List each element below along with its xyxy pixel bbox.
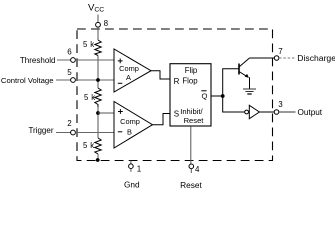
wire pin 7 to Discharge label: [279, 57, 295, 59]
wire Vcc to pin 8: [97, 15, 99, 23]
svg-text:Control Voltage: Control Voltage: [1, 76, 54, 85]
pin 2 circle: [71, 130, 76, 135]
wire Comp B output to S input: [153, 114, 171, 125]
wire Threshold lead: [57, 59, 71, 61]
wire pin 2 to Comp B - input: [75, 132, 114, 134]
svg-text:6: 6: [67, 48, 72, 57]
Comp A - input symbol: [118, 82, 123, 84]
pin 3 circle: [274, 110, 279, 115]
svg-text:Comp: Comp: [120, 117, 140, 126]
wire Trigger lead: [56, 132, 71, 134]
transistor Q1 (discharge): [239, 58, 274, 89]
wire Comp A output to R input: [151, 71, 170, 79]
junction node R3 / ground rail: [96, 158, 100, 162]
svg-text:Threshold: Threshold: [20, 56, 56, 65]
resistor R3 5k (bottom): [95, 138, 101, 154]
svg-text:Inhibit/: Inhibit/: [180, 107, 203, 116]
svg-text:Flop: Flop: [182, 77, 198, 86]
pin 4 stub: [190, 169, 192, 173]
svg-text:4: 4: [195, 165, 200, 174]
svg-text:1: 1: [137, 165, 142, 174]
svg-text:Comp: Comp: [119, 64, 139, 73]
svg-text:Q: Q: [202, 92, 208, 101]
svg-text:Discharge: Discharge: [297, 53, 335, 63]
svg-text:5 k: 5 k: [83, 40, 95, 49]
svg-text:Reset: Reset: [180, 180, 202, 190]
pin 5 circle: [71, 78, 76, 83]
svg-text:2: 2: [67, 119, 72, 128]
svg-text:7: 7: [278, 47, 283, 56]
wire junction down to inverter: [223, 96, 245, 112]
wire pin 8 to resistor chain: [97, 27, 99, 40]
pin 1 stub: [130, 169, 132, 172]
svg-text:8: 8: [104, 19, 109, 28]
pin 6 circle: [71, 58, 76, 63]
svg-text:R: R: [174, 77, 180, 86]
svg-text:5 k: 5 k: [84, 93, 96, 102]
pin 4 circle: [189, 164, 194, 169]
svg-text:Gnd: Gnd: [124, 179, 140, 189]
svg-text:Reset: Reset: [184, 116, 205, 125]
svg-text:Flip: Flip: [185, 66, 198, 75]
wire ground rail to pin 1: [130, 161, 132, 164]
wire pin 5 to Comp A - input: [75, 79, 114, 81]
svg-text:S: S: [174, 110, 179, 119]
wire inverter to pin 3: [259, 111, 274, 113]
svg-text:5 k: 5 k: [83, 141, 95, 150]
junction node 1/3 Vcc to Comp B +: [96, 111, 100, 115]
wire Inhibit/Reset to pin 4: [190, 126, 192, 164]
svg-text:5: 5: [67, 68, 72, 77]
wire Q-bar output: [211, 95, 223, 97]
wire pin 3 to Output label: [279, 111, 296, 113]
pin 7 circle: [274, 56, 279, 61]
Comp A + input symbol: [118, 59, 123, 64]
pin 8 circle: [96, 22, 101, 27]
svg-text:A: A: [126, 73, 131, 82]
wire Control Voltage lead: [56, 79, 71, 81]
inverter output buffer: [245, 105, 260, 118]
wire junction up to transistor base: [223, 69, 239, 96]
svg-text:CC: CC: [94, 7, 104, 14]
ground (transistor emitter): [243, 89, 256, 94]
resistor R2 5k (middle): [95, 88, 101, 107]
wire R2 to R3: [97, 107, 99, 138]
svg-text:B: B: [127, 128, 132, 137]
svg-text:3: 3: [278, 100, 283, 109]
resistor R1 5k (top): [95, 40, 101, 56]
Comp B + input symbol: [118, 109, 123, 114]
wire R3 to ground rail: [97, 154, 99, 160]
op-amp comparator A: [114, 49, 151, 92]
svg-text:Output: Output: [298, 108, 323, 117]
flip-flop / inhibit-reset block U1: [170, 64, 211, 126]
junction node control voltage / divider: [96, 78, 100, 82]
Comp B - input symbol: [118, 131, 123, 133]
IC dashed boundary box: [77, 29, 273, 161]
pin 1 circle: [129, 164, 134, 169]
op-amp comparator B: [114, 102, 153, 149]
wire R1 to R2: [97, 56, 99, 89]
svg-text:Trigger: Trigger: [28, 126, 53, 135]
wire pin 6 to Comp A + input: [75, 59, 114, 61]
wire node to Comp B + input: [98, 112, 114, 114]
junction node Q-bar: [221, 94, 225, 98]
